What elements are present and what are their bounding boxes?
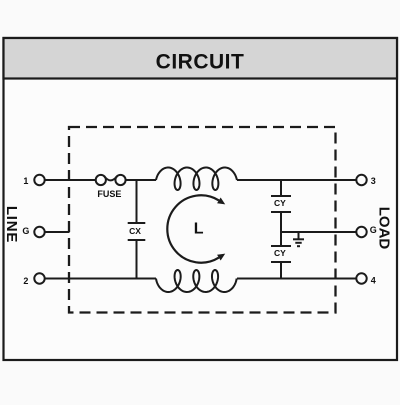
- svg-text:CY: CY: [274, 198, 286, 208]
- svg-text:L: L: [194, 221, 204, 238]
- svg-text:LINE: LINE: [3, 206, 20, 243]
- svg-text:1: 1: [23, 176, 28, 186]
- svg-text:4: 4: [371, 276, 376, 286]
- svg-text:CX: CX: [129, 226, 141, 236]
- svg-text:CY: CY: [274, 248, 286, 258]
- svg-text:3: 3: [371, 176, 376, 186]
- svg-text:G: G: [22, 226, 29, 236]
- svg-text:LOAD: LOAD: [376, 207, 393, 250]
- svg-text:FUSE: FUSE: [97, 189, 121, 199]
- svg-text:2: 2: [23, 276, 28, 286]
- svg-text:CIRCUIT: CIRCUIT: [156, 51, 245, 74]
